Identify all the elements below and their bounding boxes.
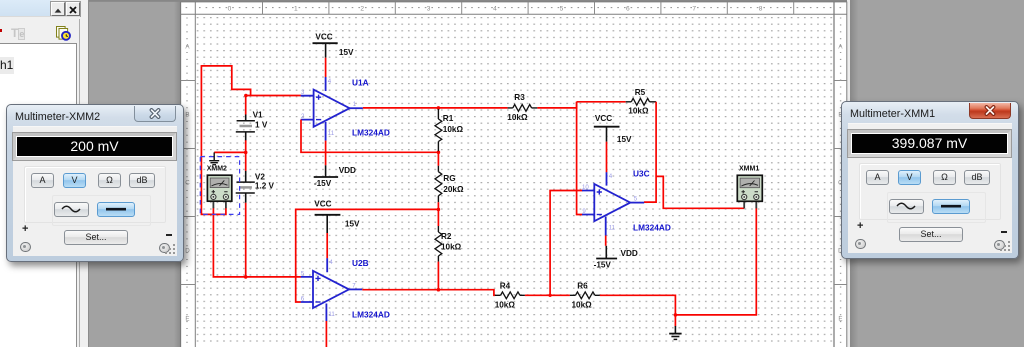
label LM324AD (U2B) bbox=[352, 310, 390, 320]
wire: U3C pin 11 to VDD bbox=[605, 236, 607, 246]
value label 10kΩ (R4) bbox=[495, 300, 516, 309]
svg-text:10: 10 bbox=[582, 184, 589, 191]
value label 20kΩ (RG) bbox=[443, 185, 464, 194]
label R3 bbox=[514, 93, 525, 102]
svg-text:10kΩ: 10kΩ bbox=[443, 125, 464, 134]
wire: inverting node to R5 left bbox=[577, 101, 626, 103]
svg-text:15V: 15V bbox=[617, 135, 632, 144]
pin number 4 (U2B V+) bbox=[329, 259, 333, 266]
pin number 4 (U1A V+) bbox=[328, 78, 332, 85]
wire: VCC to U2B pin 4 bbox=[326, 233, 328, 258]
wire: R2 bottom to U2B output rail bbox=[437, 262, 439, 290]
svg-text:8: 8 bbox=[759, 6, 763, 13]
XMM1 instrument icon bbox=[737, 175, 762, 208]
label U2B bbox=[352, 258, 369, 268]
svg-text:6: 6 bbox=[301, 296, 305, 303]
svg-text:U3C: U3C bbox=[633, 169, 650, 179]
value label 15V (U1A) bbox=[339, 48, 354, 57]
pin number 6 (U2B -) bbox=[301, 296, 305, 303]
wire: R6 right to ground column bbox=[600, 295, 676, 326]
label V1 bbox=[253, 110, 263, 119]
wire: U1A pin 11 to VDD bbox=[325, 141, 327, 166]
pin number 10 (U3C +) bbox=[582, 184, 589, 191]
svg-text:4: 4 bbox=[493, 6, 497, 13]
toolbar separator line under titlebar bbox=[0, 16, 80, 17]
svg-text:3: 3 bbox=[427, 6, 431, 13]
svg-text:R4: R4 bbox=[500, 282, 511, 291]
label VCC (U3C) bbox=[595, 114, 612, 123]
wire: output branch to XMM1 plus bbox=[656, 176, 744, 208]
wire: up from R4/R6 rail to U3C noninverting input bbox=[550, 191, 583, 296]
svg-text:U2B: U2B bbox=[352, 258, 369, 268]
value label 10kΩ (R3) bbox=[507, 113, 528, 122]
resistor RG bbox=[435, 166, 442, 202]
node: ground tap junction bbox=[244, 151, 248, 155]
resistor R6 bbox=[570, 292, 600, 299]
svg-text:5: 5 bbox=[560, 6, 564, 13]
power symbol VCC (U1A) bbox=[313, 43, 338, 58]
wire: V1 minus to V2 plus bbox=[245, 140, 247, 171]
wire: U1A inverting feedback down and right to R1 bottom bbox=[301, 120, 438, 153]
svg-text:11: 11 bbox=[328, 130, 335, 137]
node: R1 top junction bbox=[437, 106, 441, 110]
label VDD (U3C) bbox=[621, 249, 638, 258]
value label -15V (U1A) bbox=[314, 179, 332, 188]
svg-text:11: 11 bbox=[609, 225, 616, 232]
label R6 bbox=[577, 282, 588, 291]
svg-text:10kΩ: 10kΩ bbox=[507, 113, 528, 122]
wire: inverting node down to U3C minus input bbox=[577, 102, 583, 215]
svg-text:C: C bbox=[185, 180, 190, 187]
label R5 bbox=[635, 88, 646, 97]
svg-text:R6: R6 bbox=[577, 282, 588, 291]
svg-text:RG: RG bbox=[443, 174, 455, 183]
svg-text:LM324AD: LM324AD bbox=[352, 310, 390, 320]
svg-text:1 V: 1 V bbox=[255, 120, 268, 129]
pages-with-clock toolbar icon bbox=[56, 26, 72, 41]
svg-text:XMM2: XMM2 bbox=[207, 165, 227, 172]
svg-text:7: 7 bbox=[692, 6, 696, 13]
svg-text:U1A: U1A bbox=[352, 77, 369, 87]
ruler tick marks and numbers (top) bbox=[186, 2, 842, 14]
pin number 11 (U2B V-) bbox=[328, 311, 335, 318]
power symbol VCC (U2B) bbox=[315, 215, 341, 233]
label R1 bbox=[443, 114, 454, 123]
svg-text:R5: R5 bbox=[635, 88, 646, 97]
value label 15V (U3C) bbox=[617, 135, 632, 144]
power symbol VDD (U3C) bbox=[596, 246, 617, 259]
svg-text:VDD: VDD bbox=[621, 249, 638, 258]
wire: V2 minus down to bottom rail bbox=[245, 203, 247, 277]
svg-text:VCC: VCC bbox=[595, 114, 612, 123]
value label 10kΩ (R5) bbox=[628, 106, 649, 115]
label VDD (U1A) bbox=[339, 166, 356, 175]
selection box around XMM2 bbox=[200, 157, 239, 215]
label XMM2 bbox=[207, 165, 227, 172]
power symbol VDD (U1A) bbox=[314, 165, 338, 177]
label LM324AD (U1A) bbox=[352, 127, 390, 137]
svg-text:-15V: -15V bbox=[594, 261, 612, 270]
svg-text:VCC: VCC bbox=[315, 33, 332, 42]
pin number 11 (U3C V-) bbox=[609, 225, 616, 232]
svg-text:2: 2 bbox=[360, 6, 364, 13]
svg-text:LM324AD: LM324AD bbox=[352, 127, 390, 137]
svg-text:XMM1: XMM1 bbox=[739, 165, 759, 172]
svg-text:10kΩ: 10kΩ bbox=[441, 242, 462, 251]
svg-text:6: 6 bbox=[626, 6, 630, 13]
svg-text:5: 5 bbox=[301, 270, 305, 277]
pin number 2 (U1A -) bbox=[301, 113, 305, 120]
wire: R3 to U3C inverting node bbox=[537, 102, 576, 108]
white tree panel bbox=[0, 43, 77, 347]
node: bottom rail junction at battery column bbox=[244, 275, 248, 279]
op-amp U3C bbox=[582, 172, 644, 235]
ground GND2 near XMM2 bbox=[209, 152, 219, 164]
red sliver icon at left edge bbox=[0, 29, 2, 32]
svg-text:VCC: VCC bbox=[314, 200, 331, 209]
svg-text:D: D bbox=[185, 248, 190, 255]
pin number 3 (U1A +) bbox=[301, 89, 305, 96]
wire: R2 top stub bbox=[437, 209, 439, 226]
svg-text:1.2 V: 1.2 V bbox=[255, 181, 275, 190]
svg-text:R2: R2 bbox=[441, 232, 452, 241]
svg-text:-15V: -15V bbox=[314, 179, 332, 188]
svg-text:LM324AD: LM324AD bbox=[633, 223, 671, 233]
pin number 5 (U2B +) bbox=[301, 270, 305, 277]
svg-text:1: 1 bbox=[294, 6, 298, 13]
label V2 bbox=[255, 172, 265, 181]
svg-text:15V: 15V bbox=[345, 219, 360, 228]
battery V2 bbox=[236, 171, 255, 203]
svg-text:0: 0 bbox=[228, 6, 232, 13]
wire: V1+ node to U1A noninverting input bbox=[246, 95, 301, 97]
ground GND1 bbox=[669, 326, 681, 339]
svg-text:10kΩ: 10kΩ bbox=[495, 300, 516, 309]
resistor R2 bbox=[435, 226, 442, 262]
panel title bar (blue) bbox=[0, 0, 51, 16]
svg-text:10kΩ: 10kΩ bbox=[572, 300, 593, 309]
wire: U2B output to R4 bbox=[362, 290, 495, 296]
wire: left rail down to XMM2 minus bbox=[201, 65, 226, 214]
wire: ground junction to XMM1 minus bbox=[675, 208, 756, 315]
value label 1.2 V bbox=[255, 181, 275, 190]
wire: ground tap bbox=[214, 151, 246, 153]
wire: RG bottom stub bbox=[437, 202, 439, 209]
left application panel background bbox=[0, 0, 89, 347]
power symbol VCC (U3C) bbox=[594, 127, 620, 142]
wire: U2B pin 11 down off sheet bbox=[325, 321, 327, 347]
label XMM1 bbox=[739, 165, 759, 172]
label R4 bbox=[500, 282, 511, 291]
value label 10kΩ (R6) bbox=[572, 300, 593, 309]
label RG bbox=[443, 174, 455, 183]
pin number 4 (U3C V+) bbox=[609, 173, 613, 180]
resistor R1 bbox=[435, 109, 442, 151]
wire: R4 to R6 rail bbox=[525, 294, 570, 296]
value label 15V (U2B) bbox=[345, 219, 360, 228]
svg-text:VDD: VDD bbox=[339, 166, 356, 175]
resistor R3 bbox=[508, 105, 538, 112]
label LM324AD (U3C) bbox=[633, 223, 671, 233]
battery V1 bbox=[236, 115, 255, 141]
value label 10kΩ (R1) bbox=[443, 125, 464, 134]
pin number 7 (U2B out) bbox=[352, 282, 356, 289]
svg-text:R3: R3 bbox=[514, 93, 525, 102]
tree item text h1 bbox=[0, 57, 14, 74]
svg-text:20kΩ: 20kΩ bbox=[443, 185, 464, 194]
svg-text:V1: V1 bbox=[253, 110, 263, 119]
wire: RG top stub bbox=[437, 152, 439, 166]
pin number 9 (U3C -) bbox=[582, 208, 586, 215]
wire: XMM2 plus down and along bottom rail to U2B noninverting input bbox=[213, 208, 301, 277]
node: RG bottom / R2 top junction bbox=[437, 208, 441, 212]
svg-text:V2: V2 bbox=[255, 172, 265, 181]
resistor R4 bbox=[495, 292, 525, 299]
value label -15V (U3C) bbox=[594, 261, 612, 270]
node: R1 bottom / RG top junction bbox=[437, 151, 441, 155]
XMM2 instrument icon bbox=[207, 175, 231, 208]
pin number 1 (U1A out) bbox=[353, 101, 357, 108]
wire: U1A output to R3 and R1 top bbox=[363, 107, 508, 109]
wire: V1 top stub bbox=[245, 95, 247, 115]
svg-text:5: 5 bbox=[634, 196, 638, 203]
label VCC (U2B) bbox=[314, 200, 331, 209]
svg-text:15V: 15V bbox=[339, 48, 354, 57]
resistor R5 bbox=[626, 98, 656, 105]
label R2 bbox=[441, 232, 452, 241]
zone letters (left + right) bbox=[181, 18, 847, 342]
label U3C bbox=[633, 169, 650, 179]
value label 1 V bbox=[255, 120, 268, 129]
close X button bbox=[66, 2, 80, 16]
wire: VCC to U3C pin 4 bbox=[606, 142, 608, 173]
label U1A bbox=[352, 77, 369, 87]
pin number 5 (U3C out) bbox=[634, 196, 638, 203]
grayed Te toolbar icon bbox=[11, 26, 26, 40]
pin number 11 (U1A V-) bbox=[328, 130, 335, 137]
svg-text:R1: R1 bbox=[443, 114, 454, 123]
minimize button bbox=[51, 2, 65, 16]
op-amp U2B bbox=[301, 258, 363, 321]
svg-text:10kΩ: 10kΩ bbox=[628, 106, 649, 115]
node: R2 bottom junction on U2B output bbox=[437, 288, 441, 292]
svg-text:11: 11 bbox=[328, 311, 335, 318]
node: V1 top junction bbox=[244, 94, 248, 98]
node: U3C + tap junction bbox=[548, 294, 551, 297]
wire: top loop from V1+ node to left rail bbox=[201, 66, 250, 96]
wire: VCC to U1A pin 4 bbox=[325, 58, 327, 77]
wire: U2B inverting feedback rail bbox=[296, 209, 439, 302]
value label 10kΩ (R2) bbox=[441, 242, 462, 251]
wire: R5 right down to U3C output bbox=[644, 102, 656, 202]
svg-text:1: 1 bbox=[353, 101, 357, 108]
label VCC (U1A) bbox=[315, 33, 332, 42]
svg-text:4: 4 bbox=[328, 78, 332, 85]
op-amp U1A bbox=[301, 77, 363, 141]
node: ground junction bbox=[674, 313, 678, 317]
